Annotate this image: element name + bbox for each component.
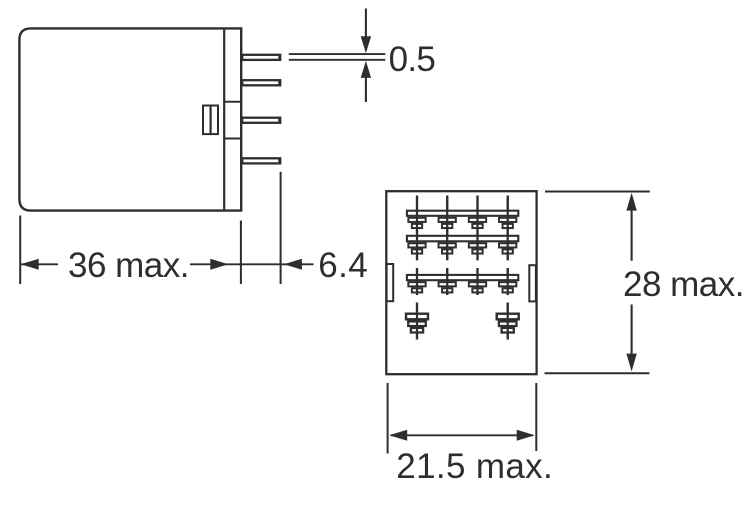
terminal row 1 col 2 — [439, 218, 456, 228]
dim line segment left of 36 max text — [20, 263, 58, 265]
dim line segment right of 36 max text — [190, 263, 314, 265]
bottom view right side tab — [529, 265, 536, 301]
terminal bar row 2 — [407, 236, 518, 242]
dim 28 max upper arrow — [626, 193, 636, 261]
svg-text:0.5: 0.5 — [389, 40, 436, 79]
center line overlay col 2 — [446, 196, 448, 261]
terminal center line col 3 rows 1-2 — [476, 196, 478, 261]
terminal center line col 3 row 3 — [476, 268, 478, 295]
terminal row 1 col 1 — [408, 218, 425, 228]
21.5 max right arrowhead — [517, 430, 535, 441]
dimension 0.5 upper arrow — [361, 9, 371, 54]
dimension 0.5 lower arrow — [361, 61, 371, 102]
base flange division lower — [224, 138, 241, 140]
center line overlay col 4 — [507, 196, 509, 261]
dim 21.5 max line — [391, 434, 533, 436]
svg-text:36 max.: 36 max. — [68, 246, 189, 285]
svg-text:6.4: 6.4 — [318, 246, 368, 285]
terminal center line col 2 rows 1-2 — [446, 196, 448, 261]
dim 21.5 max left extension line — [387, 383, 389, 454]
svg-text:28 max.: 28 max. — [623, 265, 744, 304]
case/base divider line — [223, 28, 225, 210]
terminal bar row 3 — [407, 275, 518, 280]
coil terminal row 4 col 4 — [497, 303, 519, 340]
terminal row 2 col 2 — [439, 243, 456, 253]
center line overlay col 1 — [416, 196, 418, 261]
terminal center line col 4 rows 1-2 — [507, 196, 509, 261]
latch detail — [203, 106, 218, 135]
svg-text:21.5 max.: 21.5 max. — [396, 447, 553, 486]
pin 1 (side view) — [242, 54, 280, 60]
36 max left arrowhead — [21, 259, 39, 270]
dimension 0.5 extension lines — [289, 54, 386, 60]
terminal bar row 1 — [407, 211, 518, 216]
dim 36 max right extension line — [240, 221, 242, 285]
terminal row 1 col 3 — [469, 218, 486, 228]
dim 6.4 right extension line (pin tip) — [280, 172, 282, 284]
21.5 max left arrowhead — [389, 430, 407, 441]
pin 3 (side view) — [242, 117, 280, 123]
6.4 arrowhead — [284, 259, 302, 270]
dim 28 max lower arrow — [626, 305, 636, 372]
terminal row 2 col 1 — [408, 243, 425, 253]
terminal center line col 1 rows 1-2 — [416, 196, 418, 261]
dim 28 max top extension line — [545, 191, 650, 193]
center line overlay row4 col 1 — [416, 303, 418, 340]
terminal row 3 col 1 — [408, 282, 425, 292]
pin 4 (side view) — [242, 158, 280, 164]
terminal row 2 col 4 — [499, 243, 516, 253]
36 max right arrowhead — [210, 259, 228, 270]
relay body side view outline — [19, 28, 241, 210]
dim 28 max bottom extension line — [545, 372, 650, 374]
dim 36 max left extension line — [19, 216, 21, 285]
terminal row 3 col 2 — [439, 282, 456, 292]
terminal center line col 2 row 3 — [446, 268, 448, 295]
relay bottom view outline — [386, 191, 536, 374]
terminal row 1 col 4 — [499, 218, 516, 228]
terminal row 3 col 4 — [499, 282, 516, 292]
bottom view left side tab — [387, 264, 394, 301]
terminal row 3 col 3 — [469, 282, 486, 292]
terminal center line col 4 row 3 — [507, 268, 509, 295]
dim 21.5 max right extension line — [535, 383, 537, 451]
center line overlay col 3 — [476, 196, 478, 261]
base flange division upper — [224, 101, 241, 103]
terminal center line col 1 row 3 — [416, 268, 418, 295]
center line overlay row4 col 4 — [507, 303, 509, 340]
terminal row 2 col 3 — [469, 243, 486, 253]
pin 2 (side view) — [242, 80, 280, 86]
coil terminal row 4 col 1 — [406, 303, 428, 340]
